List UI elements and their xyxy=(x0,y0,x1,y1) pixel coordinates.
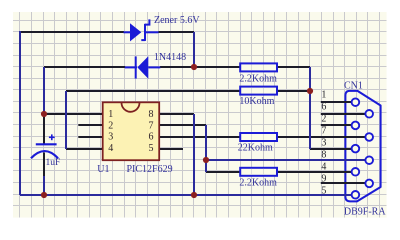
svg-text:U1: U1 xyxy=(97,164,109,175)
svg-text:10Kohm: 10Kohm xyxy=(239,96,274,107)
svg-text:7: 7 xyxy=(149,120,154,131)
svg-text:2: 2 xyxy=(321,114,326,125)
svg-text:1uF: 1uF xyxy=(46,158,61,168)
svg-text:7: 7 xyxy=(321,126,326,137)
svg-text:PIC12F629: PIC12F629 xyxy=(127,164,173,175)
svg-text:5: 5 xyxy=(321,186,326,197)
svg-text:3: 3 xyxy=(108,132,113,143)
svg-text:2: 2 xyxy=(108,120,113,131)
svg-text:1N4148: 1N4148 xyxy=(154,52,186,63)
svg-text:8: 8 xyxy=(321,150,326,161)
svg-text:2.2Kohm: 2.2Kohm xyxy=(239,177,277,188)
svg-text:2.2Kohm: 2.2Kohm xyxy=(239,73,277,84)
svg-text:6: 6 xyxy=(321,102,326,113)
svg-text:3: 3 xyxy=(321,138,326,149)
svg-text:CN1: CN1 xyxy=(344,81,363,92)
svg-text:22Kohm: 22Kohm xyxy=(238,143,273,154)
svg-text:Zener 5.6V: Zener 5.6V xyxy=(154,15,200,26)
svg-text:1: 1 xyxy=(108,109,113,120)
svg-text:8: 8 xyxy=(149,109,154,120)
svg-text:DB9F-RA: DB9F-RA xyxy=(344,206,386,217)
svg-text:9: 9 xyxy=(321,174,326,185)
svg-text:4: 4 xyxy=(108,143,113,154)
svg-text:4: 4 xyxy=(321,162,326,173)
svg-text:6: 6 xyxy=(149,132,154,143)
svg-text:1: 1 xyxy=(321,90,326,101)
svg-text:5: 5 xyxy=(149,143,154,154)
